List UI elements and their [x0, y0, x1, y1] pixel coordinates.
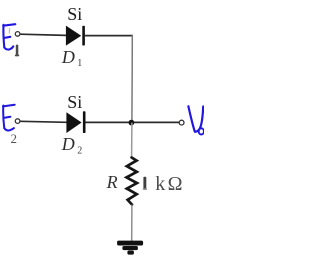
wire E2 to D2	[20, 121, 66, 122]
terminal E1	[15, 32, 20, 37]
faint print remnant near E1	[8, 28, 10, 34]
ground	[117, 241, 143, 255]
wire D1 to top corner	[85, 35, 133, 37]
junction dot	[129, 120, 135, 126]
label 1 (subscript of E1)	[15, 45, 19, 57]
svg-text:2: 2	[11, 131, 18, 146]
resistor R (zigzag)	[127, 158, 138, 205]
svg-text:Si: Si	[67, 92, 82, 112]
terminal Vo	[179, 120, 184, 125]
svg-text:1: 1	[77, 58, 82, 69]
svg-text:kΩ: kΩ	[155, 173, 184, 195]
wire E1 to D1	[20, 34, 66, 35]
wire D2 to output terminal	[86, 121, 180, 123]
svg-text:D: D	[61, 47, 75, 67]
svg-text:Si: Si	[67, 4, 82, 24]
svg-text:D: D	[61, 134, 75, 154]
wire top corner down to junction	[131, 35, 133, 123]
diode D2	[66, 111, 85, 133]
node E2 (blue handwritten E)	[3, 105, 15, 131]
svg-text:2: 2	[77, 145, 82, 156]
diode D1	[66, 26, 85, 46]
wire resistor to ground	[131, 205, 133, 242]
svg-text:R: R	[106, 172, 118, 192]
node Vo (blue handwritten V with o subscript)	[188, 106, 204, 134]
wire junction down to resistor	[131, 123, 133, 158]
terminal E2	[15, 119, 20, 124]
node E1 (blue handwritten E)	[3, 24, 15, 49]
label 1 kOhm	[143, 177, 147, 190]
